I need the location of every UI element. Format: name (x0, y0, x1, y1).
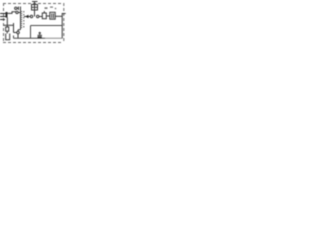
capacitor C1 with terminal (top-left group) (15, 7, 21, 11)
connector contact B1 (30, 15, 32, 17)
wire terminal to transformer (18, 12, 20, 14)
dashed enclosure border (3, 3, 64, 43)
connector contact B2 (37, 15, 39, 17)
wire plug to terminal (with step) (8, 12, 16, 14)
wire U2 to output bus (55, 15, 62, 17)
capacitor C2 body (38, 36, 42, 38)
ground clamp (U shape) (6, 34, 10, 40)
transformer T1 core (23, 11, 25, 28)
label dot (55, 8, 56, 9)
filter box FL1 (6, 27, 9, 31)
mains plug J1 (left connector) (0, 12, 7, 20)
lead from transformer bottom (18, 30, 21, 39)
wire U1 to U2 (46, 15, 50, 17)
label U1 (45, 7, 48, 9)
wire secondary to connector (24, 16, 30, 18)
bottom rail (14, 36, 46, 39)
connector contact C (17, 31, 20, 34)
transformer T1 primary winding (21, 10, 23, 30)
circuit schematic: isolated power supply inside dashed enclosure (0, 0, 66, 47)
arrow on secondary wire (25, 15, 29, 19)
bottom rail (light right half) (45, 37, 62, 39)
module U2 (striped box) (50, 12, 55, 19)
stem (6, 31, 8, 33)
fuse F1 on top entry (32, 1, 38, 17)
module U1 (box) (42, 11, 46, 19)
label U2 (50, 7, 53, 8)
node terminal A (16, 11, 18, 13)
mid rail wire (31, 26, 63, 39)
output stub (62, 13, 65, 15)
left return net wires (4, 18, 17, 33)
capacitor C2 (polarized) (38, 32, 43, 36)
output bus (right vertical) (61, 13, 63, 39)
wire to module U1 (39, 16, 42, 18)
